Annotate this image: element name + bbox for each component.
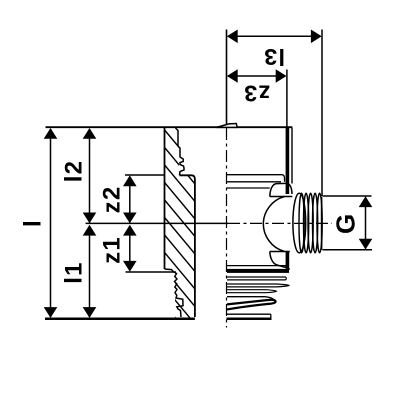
svg-text:l1: l1 <box>61 261 88 283</box>
svg-text:z3: z3 <box>243 80 270 106</box>
svg-text:l2: l2 <box>61 160 88 182</box>
svg-text:z1: z1 <box>98 236 125 264</box>
svg-text:z2: z2 <box>98 186 125 214</box>
svg-text:G: G <box>330 213 360 234</box>
svg-text:l3: l3 <box>263 44 285 70</box>
svg-text:l: l <box>20 219 47 227</box>
